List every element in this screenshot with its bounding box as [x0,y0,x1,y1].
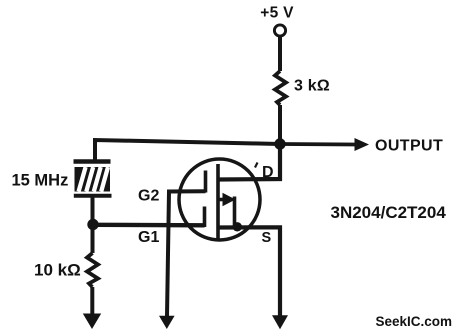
svg-text:10 kΩ: 10 kΩ [34,261,81,280]
svg-text:S: S [262,230,272,246]
svg-text:+5 V: +5 V [260,4,294,21]
svg-text:3 kΩ: 3 kΩ [294,78,330,95]
svg-text:15 MHz: 15 MHz [12,172,69,190]
svg-text:3N204/C2T204: 3N204/C2T204 [331,203,447,222]
svg-text:SeekIC.com: SeekIC.com [376,314,453,329]
svg-text:G1: G1 [138,229,159,246]
svg-text:OUTPUT: OUTPUT [375,138,443,155]
svg-text:D: D [262,164,274,181]
svg-text:G2: G2 [138,188,159,205]
